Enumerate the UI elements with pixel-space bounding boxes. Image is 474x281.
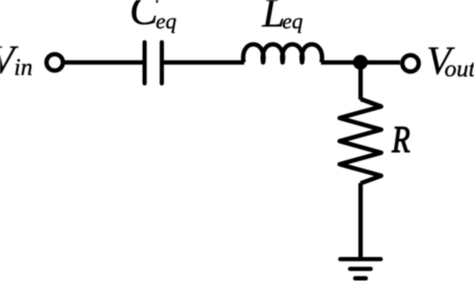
label Vin — [0, 37, 33, 82]
wire — [163, 60, 244, 64]
svg-text:eq: eq — [156, 8, 177, 33]
svg-text:eq: eq — [282, 8, 303, 33]
label R — [391, 119, 410, 160]
inductor L_eq — [243, 44, 322, 62]
svg-text:R: R — [391, 119, 410, 160]
label Ceq — [130, 0, 177, 34]
node junction dot — [353, 55, 368, 70]
capacitor C_eq — [145, 42, 162, 83]
wire — [358, 183, 362, 259]
wire — [65, 60, 143, 64]
node Vin terminal — [47, 54, 63, 70]
wire — [358, 62, 362, 99]
wire — [321, 60, 400, 64]
label Leq — [261, 0, 303, 36]
svg-text:out: out — [445, 57, 474, 83]
resistor R — [340, 99, 382, 183]
ground — [340, 259, 380, 278]
svg-text:in: in — [14, 55, 33, 81]
node Vout terminal — [402, 55, 418, 71]
label Vout — [427, 38, 474, 83]
